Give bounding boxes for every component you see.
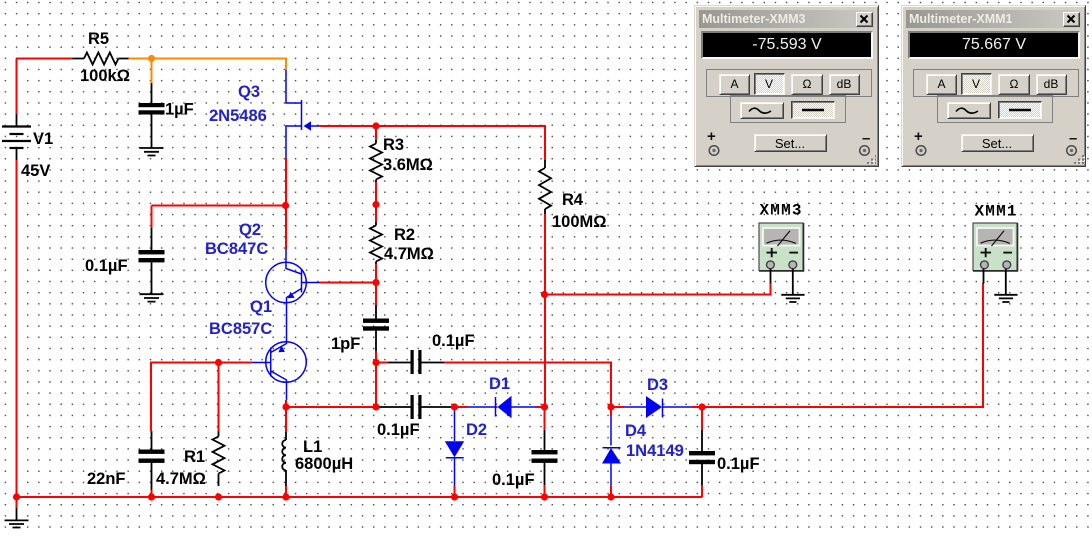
svg-text:4.7MΩ: 4.7MΩ bbox=[156, 470, 206, 488]
wire R5 right orange bbox=[129, 59, 287, 71]
resistor R2 bbox=[370, 226, 382, 262]
ground under 1uF bbox=[140, 148, 164, 156]
svg-text:V1: V1 bbox=[33, 130, 53, 148]
svg-text:XMM1: XMM1 bbox=[975, 203, 1018, 221]
transistor Q2 emitter arrow bbox=[288, 292, 295, 298]
resistor R5 bbox=[84, 53, 118, 65]
svg-text:100MΩ: 100MΩ bbox=[552, 213, 607, 231]
svg-text:6800µH: 6800µH bbox=[295, 455, 353, 473]
node Q1 bottom / L1 bbox=[282, 403, 289, 410]
svg-text:2N5486: 2N5486 bbox=[209, 107, 267, 125]
resistor R5 leads bbox=[73, 58, 129, 60]
capacitor C 1uF leads bbox=[151, 83, 153, 148]
inductor L1 leads bbox=[285, 432, 287, 486]
svg-text:R5: R5 bbox=[88, 30, 109, 48]
svg-text:D2: D2 bbox=[466, 421, 487, 439]
wire ground bus bbox=[17, 496, 703, 498]
svg-text:Q3: Q3 bbox=[238, 83, 260, 101]
svg-text:100kΩ: 100kΩ bbox=[80, 67, 130, 85]
svg-text:BC847C: BC847C bbox=[205, 240, 268, 258]
svg-text:R3: R3 bbox=[383, 136, 404, 154]
svg-text:1pF: 1pF bbox=[331, 335, 360, 353]
wire Q2 emitter to Q1 bbox=[286, 303, 288, 342]
wire R2 leads bbox=[375, 205, 377, 223]
svg-text:1µF: 1µF bbox=[165, 101, 194, 119]
svg-text:0.1µF: 0.1µF bbox=[85, 257, 128, 275]
resistor R1 leads bbox=[218, 431, 220, 486]
wire cap2 top bbox=[152, 205, 286, 207]
wire V1 top to R5 bbox=[17, 58, 73, 60]
diode D2 leads bbox=[454, 407, 456, 486]
capacitor 1pF leads bbox=[375, 305, 377, 351]
node row407 points bbox=[372, 403, 379, 410]
wire node to XMM1 bbox=[702, 283, 983, 407]
node R3 top bbox=[372, 122, 379, 129]
resistor R2 leads bbox=[375, 222, 377, 264]
wire D2 bottom bbox=[454, 486, 456, 498]
capacitor 0.1uF top horizontal leads bbox=[388, 362, 444, 364]
node 1pF bottom bbox=[372, 359, 379, 366]
wire L1 top bbox=[285, 407, 287, 432]
instrument XMM1 icon bbox=[973, 203, 1018, 303]
wire 1pF top lead bbox=[375, 283, 377, 306]
XMM1 plus lead bbox=[983, 269, 985, 284]
svg-text:D1: D1 bbox=[489, 375, 510, 393]
svg-text:D4: D4 bbox=[625, 422, 647, 440]
wire R1 top bbox=[218, 363, 220, 432]
diode D1 triangle bbox=[498, 396, 512, 418]
node bus dots bbox=[13, 493, 20, 500]
node R5/C1 (orange) bbox=[148, 55, 155, 62]
wire cap3 right to corner 611 bbox=[376, 362, 388, 364]
svg-text:0.1µF: 0.1µF bbox=[432, 332, 475, 350]
svg-text:BC857C: BC857C bbox=[209, 320, 272, 338]
capacitor 0.1uF bottom horizontal leads bbox=[376, 406, 455, 408]
svg-text:45V: 45V bbox=[21, 162, 50, 180]
resistor R3 leads bbox=[375, 140, 377, 182]
svg-text:0.1µF: 0.1µF bbox=[492, 471, 535, 489]
node R3/R2 bbox=[372, 201, 379, 208]
node R2/1pF/Q2 base bbox=[372, 279, 379, 286]
svg-text:L1: L1 bbox=[303, 438, 322, 456]
wire D4 bottom stub bbox=[610, 486, 612, 498]
inductor L1 bbox=[282, 440, 286, 470]
wire D3 stubs bbox=[611, 406, 624, 408]
transistor Q1 emitter arrow bbox=[278, 346, 285, 353]
svg-text:0.1µF: 0.1µF bbox=[377, 421, 420, 439]
svg-text:R1: R1 bbox=[184, 448, 205, 466]
resistor R3 bbox=[370, 144, 382, 180]
wire L1 bottom bbox=[285, 486, 287, 498]
XMM1 minus lead bbox=[1005, 269, 1007, 294]
wire orange down to 1uF bbox=[151, 59, 153, 84]
diode D3 triangle bbox=[646, 396, 662, 418]
transistor Q2 bbox=[266, 262, 307, 303]
wire node B to XMM3 plus bbox=[545, 283, 771, 295]
wire base Q1 row bbox=[151, 363, 252, 432]
svg-text:R4: R4 bbox=[562, 191, 584, 209]
capacitor 1pF plates bbox=[363, 319, 389, 323]
capacitor 1uF plates bbox=[139, 103, 165, 107]
node Q3 source/Q2 collector bbox=[282, 202, 289, 209]
wire D4 top stub bbox=[610, 407, 612, 416]
wire Q3 gate to R4 top bbox=[320, 126, 545, 160]
svg-text:3.6MΩ: 3.6MΩ bbox=[383, 156, 433, 174]
ground XMM3 bbox=[781, 295, 804, 302]
ground under 0.1uF left bbox=[140, 294, 164, 301]
wire Q1 bottom node bbox=[285, 400, 287, 407]
svg-text:Q1: Q1 bbox=[250, 298, 272, 316]
svg-text:1N4149: 1N4149 bbox=[626, 442, 684, 460]
capacitor 22nF leads bbox=[151, 431, 153, 490]
diode D4 leads bbox=[610, 416, 612, 486]
capacitor cap703 leads bbox=[701, 430, 703, 485]
wire cap703 top bbox=[701, 407, 703, 430]
capacitor 0.1uF left leads bbox=[151, 228, 153, 294]
diode D1 leads bbox=[467, 406, 535, 408]
svg-text:R2: R2 bbox=[394, 226, 415, 244]
transistor Q1 bbox=[266, 342, 307, 383]
resistor R4 leads bbox=[544, 160, 546, 214]
capacitor 0.1uF bottom horiz plates bbox=[411, 395, 414, 419]
wire XMM3 plus lead red bbox=[770, 283, 772, 295]
wire R3 leads bbox=[375, 126, 377, 140]
svg-text:XMM3: XMM3 bbox=[760, 202, 803, 220]
capacitor 22nF plates bbox=[139, 450, 165, 454]
wire cap545 bottom bbox=[544, 485, 546, 498]
capacitor cap545 leads bbox=[544, 430, 546, 485]
capacitor 0.1uF left plates bbox=[139, 250, 165, 254]
svg-text:D3: D3 bbox=[647, 376, 668, 394]
transistor Q3 JFET leads bbox=[286, 70, 302, 103]
svg-text:4.7MΩ: 4.7MΩ bbox=[384, 245, 434, 263]
wire left rail V1 bbox=[16, 59, 18, 115]
diode D2 triangle bbox=[445, 441, 464, 457]
XMM3 plus lead bbox=[770, 269, 772, 284]
wire 1pF bottom to node bbox=[375, 351, 377, 363]
XMM3 minus lead bbox=[792, 269, 794, 294]
ground XMM1 bbox=[994, 295, 1017, 302]
resistor R1 bbox=[213, 437, 225, 474]
svg-text:Q2: Q2 bbox=[239, 221, 261, 239]
svg-text:0.1µF: 0.1µF bbox=[717, 455, 760, 473]
wire Q3 source down bbox=[285, 158, 287, 250]
wire cap703 bottom bbox=[701, 485, 703, 497]
instrument XMM3 icon bbox=[759, 202, 805, 303]
capacitor cap703 plates bbox=[689, 451, 715, 455]
wire node row y407 D1 stubs bbox=[286, 406, 376, 408]
orange net bbox=[129, 59, 287, 84]
battery V1 bbox=[16, 114, 18, 160]
wire gnd stub bottom left bbox=[16, 497, 18, 508]
capacitor 0.1uF top horiz plates bbox=[411, 350, 414, 374]
wire node C down bbox=[375, 363, 377, 408]
wire Q2 base to R2R3 node bbox=[320, 282, 376, 284]
node R4 bottom / XMM3 bbox=[541, 291, 548, 298]
capacitor plates (filled) bbox=[139, 103, 716, 464]
svg-text:22nF: 22nF bbox=[87, 470, 126, 488]
resistor R4 bbox=[539, 168, 551, 209]
wire cap545 top bbox=[544, 407, 546, 430]
node Q1 base row bbox=[215, 359, 222, 366]
diode D3 leads bbox=[624, 406, 692, 408]
ground bottom left bbox=[16, 508, 18, 520]
transistor Q3 gate arrow bbox=[304, 121, 312, 130]
diode D4 triangle bbox=[602, 448, 621, 464]
wire 22nF bottom red bbox=[151, 490, 153, 497]
wire R4 bottom to node bbox=[544, 214, 546, 407]
capacitor cap545 plates bbox=[532, 450, 558, 454]
